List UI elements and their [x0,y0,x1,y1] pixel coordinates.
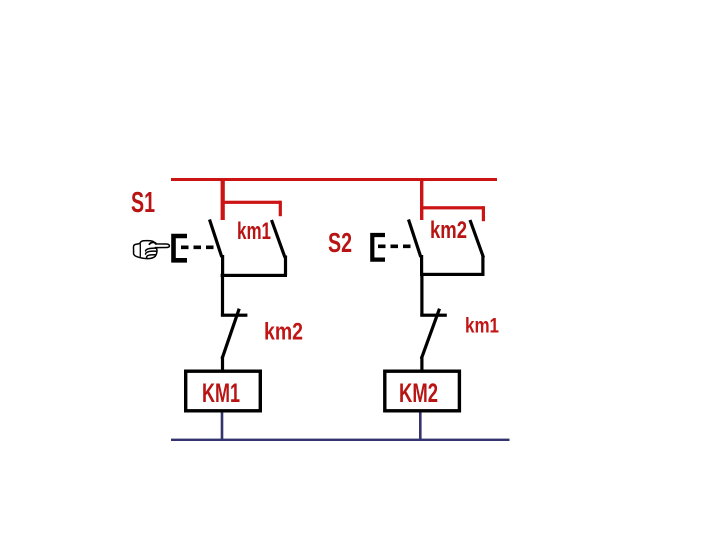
label S1 [131,187,155,219]
actuator bracket of S1 [174,236,188,260]
svg-text:S2: S2 [328,227,352,258]
label km1 (top) [237,218,271,245]
pushbutton S1 contact blade [210,220,225,277]
wire into KM1 coil [221,357,224,371]
pushbutton S1 red bracket (parallel tap to km1) [221,201,282,217]
wire: red supply bus [171,178,497,181]
wire KM2 to neutral (navy) [419,413,422,440]
actuator bracket of S2 [372,235,385,260]
label S2 [328,227,352,258]
svg-text:KM1: KM1 [202,378,240,408]
contact km1 (NO, parallel with S1) [272,220,288,276]
label KM2 [399,378,438,408]
svg-text:S1: S1 [131,187,155,219]
wire: navy neutral bus [171,439,510,441]
wire into KM2 coil [420,357,423,371]
label km2 (left branch) [264,319,303,346]
wire: connector below S1 and km1 [221,274,287,277]
hand pointer icon [134,241,170,259]
coil KM1 box [186,371,261,411]
wire: red tap to S1 branch [221,179,225,220]
wire: red tap to S2 branch [420,179,423,220]
svg-text:KM2: KM2 [399,378,438,408]
pushbutton S2 red bracket (parallel tap to km2) [421,206,486,221]
wire: connector below S2 and km2 [420,273,484,276]
wire KM1 to neutral (navy) [221,413,224,440]
contact km2 (NC interlock in left branch) [221,309,248,359]
svg-text:km1: km1 [465,315,499,338]
contact km2 (NO, parallel with S2) [470,220,485,276]
mechanical link (dashed) S2 [378,245,411,249]
wire: left branch down [221,277,224,316]
svg-text:km2: km2 [430,217,467,244]
label KM1 [202,378,240,408]
contact km1 (NC interlock in right branch) [420,309,447,359]
svg-text:km2: km2 [264,319,303,346]
label km2 (top right) [430,217,467,244]
pushbutton S2 contact blade [409,220,424,277]
svg-text:km1: km1 [237,218,271,245]
label km1 (right branch) [465,315,499,338]
mechanical link (dashed) S1 [181,246,215,250]
coil KM2 box [385,371,460,411]
wire: right branch down [420,276,423,316]
